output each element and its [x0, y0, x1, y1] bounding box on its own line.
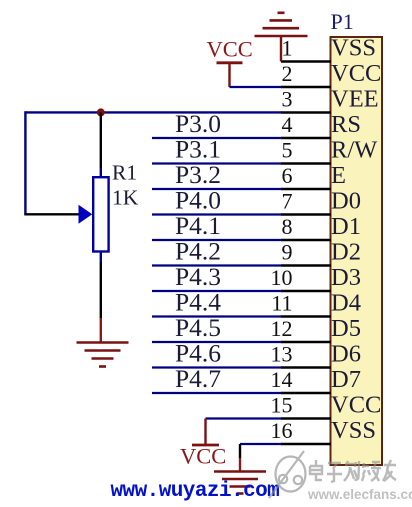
pin 13 stub [281, 366, 331, 368]
svg-text:6: 6 [282, 163, 293, 188]
wire VEE net (pin 3 horizontal) [25, 111, 282, 113]
svg-text:www.elecfans.com: www.elecfans.com [307, 487, 412, 502]
svg-text:3: 3 [282, 87, 293, 112]
junction dot VEE node [97, 108, 105, 116]
pin 15 stub [281, 417, 331, 419]
svg-text:VCC: VCC [331, 392, 381, 419]
svg-text:E: E [331, 162, 346, 189]
svg-text:VCC: VCC [207, 37, 253, 62]
wire P3.1 [152, 162, 282, 164]
pin 2 stub [281, 86, 331, 88]
wire P4.3 [152, 290, 282, 292]
svg-text:1: 1 [282, 36, 293, 61]
svg-text:16: 16 [271, 418, 293, 443]
svg-text:D4: D4 [331, 290, 361, 317]
pin 3 stub [281, 111, 331, 113]
wire P3.2 [152, 188, 282, 190]
wire P4.4 [152, 315, 282, 317]
svg-text:VSS: VSS [331, 417, 376, 444]
svg-text:14: 14 [271, 367, 293, 392]
svg-text:www.wuyazi.com: www.wuyazi.com [111, 480, 280, 503]
svg-text:VEE: VEE [331, 86, 379, 113]
svg-text:10: 10 [271, 265, 293, 290]
wire R1 bottom to ground [100, 252, 102, 262]
pin 14 stub [281, 392, 331, 394]
pin 16 stub [281, 443, 331, 445]
pin 11 stub [281, 315, 331, 317]
svg-text:D5: D5 [331, 315, 361, 342]
pin 4 stub [281, 137, 331, 139]
svg-text:4: 4 [282, 112, 293, 137]
ground GND top (pin 1) [255, 13, 308, 62]
svg-text:13: 13 [271, 342, 293, 367]
wire P3.0 / net label [152, 137, 282, 139]
ground GND bottom (pin 16) [214, 472, 266, 494]
svg-text:15: 15 [271, 393, 293, 418]
svg-text:R/W: R/W [331, 137, 378, 164]
wire pin 16 to ground [240, 443, 282, 445]
pin 12 stub [281, 341, 331, 343]
svg-text:2: 2 [282, 61, 293, 86]
wire P4.6 [152, 366, 282, 368]
pin 5 stub [281, 162, 331, 164]
pin 9 stub [281, 264, 331, 266]
wire P4.5 [152, 341, 282, 343]
wire P4.1 [152, 239, 282, 241]
R1 wiper arrow [79, 205, 93, 224]
svg-text:9: 9 [282, 240, 293, 265]
resistor R1 (potentiometer) body [93, 177, 108, 251]
wire P4.7 [152, 392, 282, 394]
svg-text:D3: D3 [331, 264, 361, 291]
svg-text:VCC: VCC [331, 60, 381, 87]
svg-text:7: 7 [282, 189, 293, 214]
svg-text:P4.7: P4.7 [175, 364, 221, 393]
svg-text:12: 12 [271, 316, 293, 341]
pin 7 stub [281, 213, 331, 215]
svg-text:1K: 1K [112, 186, 139, 210]
pin 1 stub [281, 60, 331, 62]
svg-text:RS: RS [331, 111, 361, 138]
wire pin 15 to VCC [206, 417, 283, 419]
power VCC bottom (pin 15) [180, 419, 226, 469]
svg-text:R1: R1 [112, 161, 137, 185]
wire VCC to pin 2 [230, 86, 283, 88]
svg-text:8: 8 [282, 214, 293, 239]
svg-text:VSS: VSS [331, 35, 376, 62]
svg-text:D7: D7 [331, 366, 361, 393]
wire to R1 wiper [24, 213, 79, 215]
wire VEE net left vertical [24, 111, 26, 214]
pin 6 stub [281, 188, 331, 190]
svg-text:D2: D2 [331, 239, 361, 266]
ground GND (below R1) [77, 343, 129, 367]
svg-text:VCC: VCC [180, 444, 226, 469]
svg-text:P1: P1 [331, 9, 354, 34]
svg-text:D0: D0 [331, 188, 361, 215]
pin 8 stub [281, 239, 331, 241]
svg-text:D1: D1 [331, 213, 361, 240]
wire P4.2 [152, 264, 282, 266]
connector P1 body [331, 37, 383, 465]
power VCC top (pin 2) [207, 37, 253, 88]
svg-text:11: 11 [271, 291, 292, 316]
wire junction to R1 top [100, 112, 102, 168]
wire P4.0 [152, 213, 282, 215]
svg-text:5: 5 [282, 138, 293, 163]
pin 10 stub [281, 290, 331, 292]
svg-text:D6: D6 [331, 341, 361, 368]
